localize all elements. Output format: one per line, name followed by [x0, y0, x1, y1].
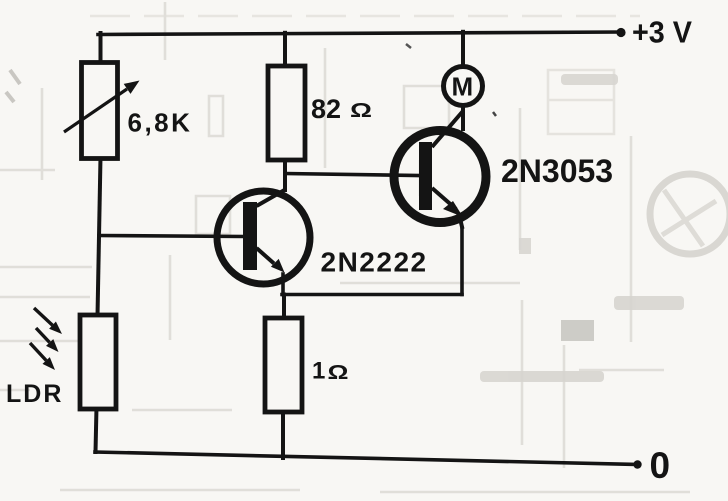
svg-text:LDR: LDR [6, 380, 63, 408]
R1 adjustment arrow [64, 89, 127, 132]
svg-text:82: 82 [311, 94, 341, 124]
resistor R3 1Ω body [265, 318, 302, 412]
transistor Q2 2N3053 [394, 111, 486, 229]
wire: R3 bottom to bottom rail [281, 411, 285, 458]
svg-text:2N3053: 2N3053 [501, 153, 613, 189]
svg-text:6,8K: 6,8K [128, 108, 193, 138]
ghost hatched box [561, 320, 594, 341]
wire: emitter junction to R3 top [282, 295, 286, 320]
wire: motor bottom to Q2 collector [461, 107, 465, 129]
LDR light arrow 1 [34, 308, 53, 325]
LDR body [80, 315, 116, 409]
ghost circle (bleed-through) [650, 174, 728, 254]
ghost text blobs [480, 74, 684, 382]
wire: top rail to R1 top [99, 33, 103, 64]
LDR light arrow 2 [36, 328, 50, 343]
svg-text:1: 1 [312, 358, 325, 385]
bottom rail (0) [95, 452, 638, 465]
svg-text:Ω: Ω [328, 362, 349, 384]
wire: vertical up to Q2 emitter [460, 228, 464, 295]
LDR light arrow 3 [30, 343, 46, 361]
svg-text:M: M [452, 72, 474, 102]
0 terminal dot [633, 460, 641, 468]
svg-text:Ω: Ω [350, 100, 372, 122]
+3V terminal dot [616, 28, 625, 37]
motor M [444, 67, 483, 106]
variable resistor R1 6,8K body [82, 63, 118, 159]
wire: LDR bottom to bottom rail [96, 407, 97, 452]
wire: node A to Q1 base [99, 236, 243, 237]
wire: R2 bottom to Q1 collector at circle rim [283, 158, 287, 190]
wire: Q1 emitter to junction below [281, 274, 285, 295]
wire: junction to Q2 base [285, 174, 419, 176]
wire: top rail to R2 top [283, 33, 287, 68]
top rail (+3V) [98, 32, 622, 35]
wire: motor top to rail [461, 32, 465, 66]
svg-text:0: 0 [650, 445, 671, 486]
small scan flecks [406, 44, 411, 48]
svg-text:+3 V: +3 V [632, 15, 692, 50]
svg-text:2N2222: 2N2222 [321, 247, 428, 278]
transistor Q1 2N2222 [217, 190, 310, 284]
resistor R2 82Ω body [268, 66, 305, 160]
wire: R1 bottom to LDR top [98, 157, 101, 316]
wire: emitter junction to Q2 emitter (horizontal) [282, 293, 462, 297]
